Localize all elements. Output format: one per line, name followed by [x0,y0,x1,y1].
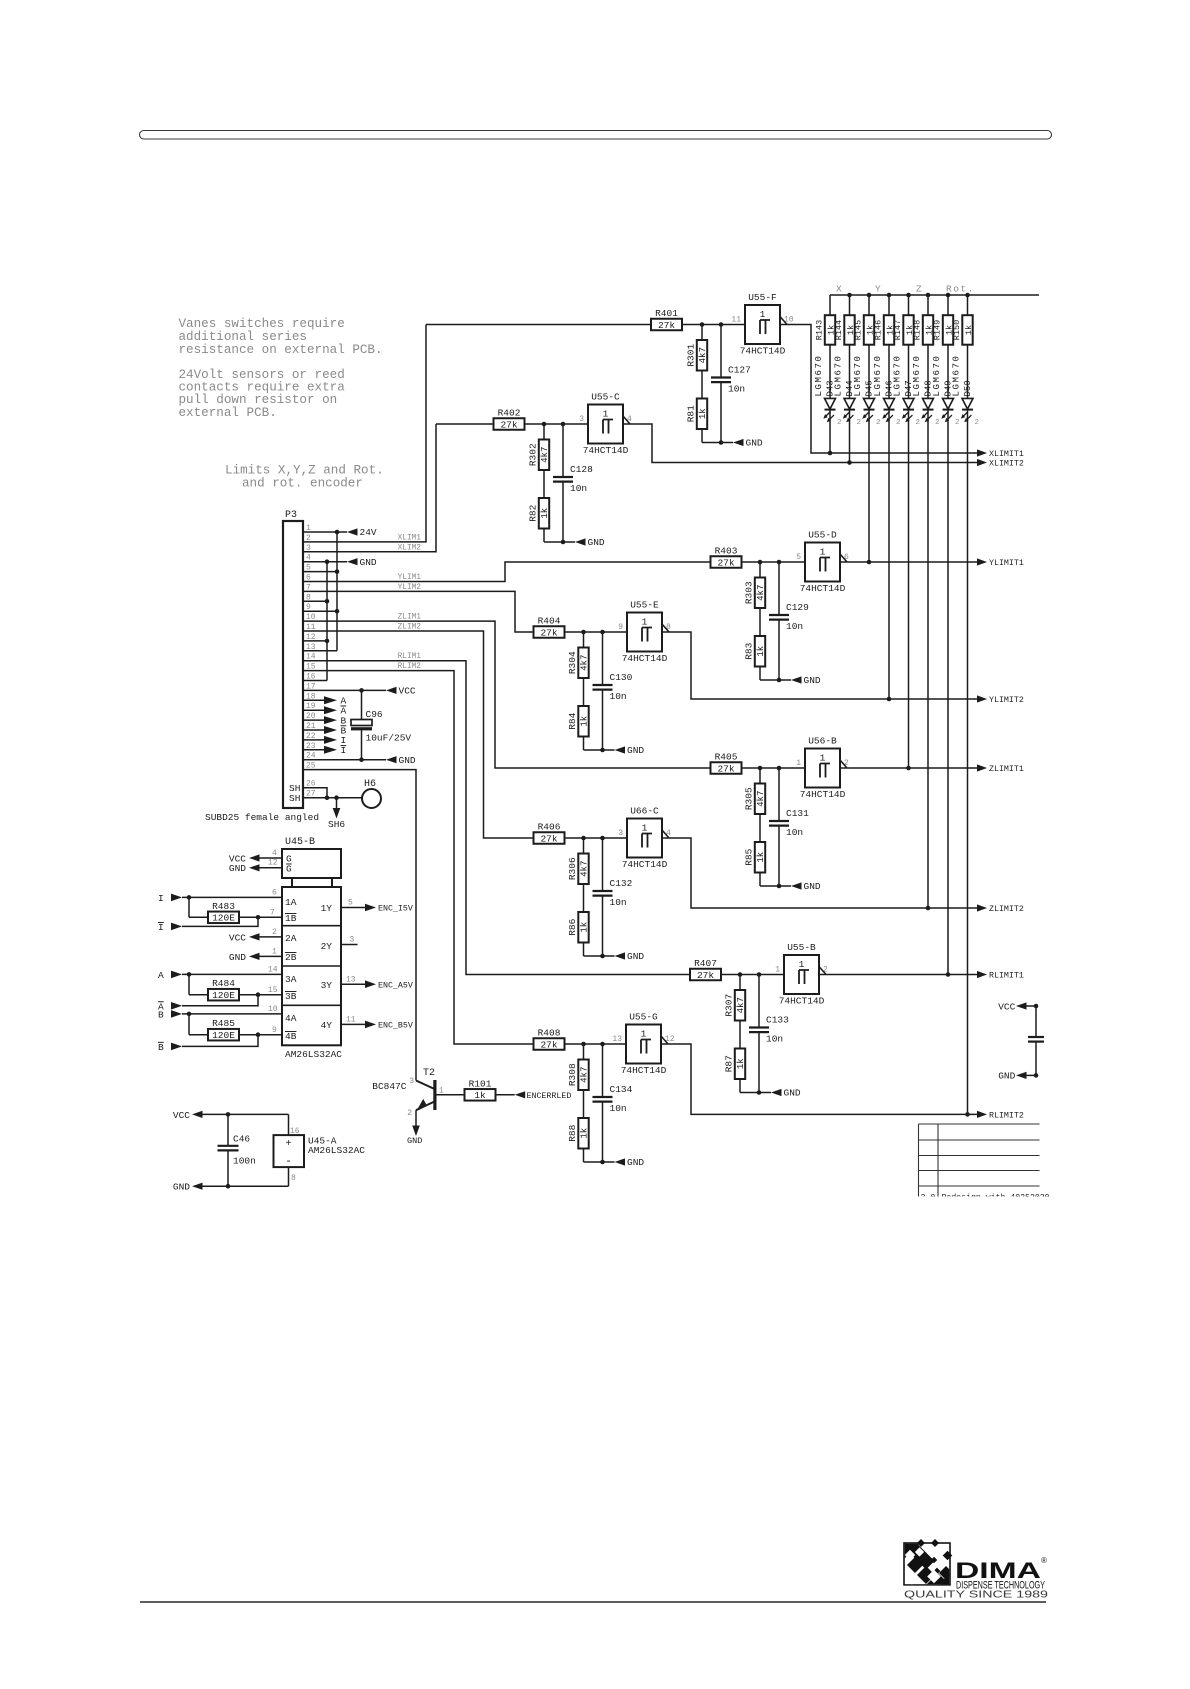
junction [777,884,782,889]
svg-text:1: 1 [642,617,648,628]
resistor R146 [884,315,894,345]
svg-text:XLIMIT2: XLIMIT2 [989,460,1024,469]
svg-text:U66-C: U66-C [630,806,659,817]
svg-text:U56-B: U56-B [808,736,837,747]
svg-text:10uF/25V: 10uF/25V [366,733,412,744]
junction [187,972,192,977]
svg-text:C132: C132 [610,878,633,889]
svg-text:14: 14 [268,966,278,975]
junction node at R301 top [700,322,705,327]
svg-text:3: 3 [350,936,355,945]
svg-text:2: 2 [876,419,881,427]
svg-text:ENC_B5V: ENC_B5V [378,1022,413,1031]
wire 2Y stub [341,944,358,946]
junction [325,559,330,564]
wire YLIMIT1 [840,561,977,563]
wire R406 to U66-C [565,837,628,839]
svg-text:9: 9 [618,623,623,632]
wire R101 to ENCERRLED [496,1094,515,1096]
svg-text:SH6: SH6 [328,819,345,830]
svg-text:2: 2 [837,419,842,427]
svg-text:4A: 4A [285,1013,297,1024]
svg-text:11: 11 [346,1016,356,1025]
svg-text:P3: P3 [285,510,297,521]
svg-text:R307: R307 [724,994,735,1017]
svg-text:10n: 10n [610,691,627,702]
ground GND [615,746,626,753]
wire gnd [760,885,791,887]
junction [965,293,970,298]
junction [600,954,605,959]
svg-text:4k7: 4k7 [736,997,746,1013]
wire column 8 lower [967,410,969,1115]
junction node at R304 top [581,630,586,635]
svg-text:-: - [285,1156,292,1168]
junction node at R306 top [581,836,586,841]
svg-text:13: 13 [612,1035,622,1044]
svg-text:Z: Z [916,284,923,295]
wire pin21 [303,729,324,731]
wire emitter to GND [415,1110,417,1125]
svg-text:I: I [341,745,347,756]
svg-text:74HCT14D: 74HCT14D [800,583,846,594]
wire R301-R81 [701,371,703,399]
svg-text:U55-E: U55-E [630,600,659,611]
svg-text:R82: R82 [528,504,539,521]
wire pin1 24V [303,531,347,533]
svg-text:ENCERRLED: ENCERRLED [527,1092,572,1101]
wire R305 top [759,768,761,784]
svg-text:R485: R485 [212,1018,235,1029]
capacitor C130 [602,632,604,685]
resistor R150 [962,315,972,345]
wire gnd [702,442,733,444]
svg-text:3: 3 [618,829,623,838]
junction [334,795,339,800]
connector P3 [283,521,303,808]
wire R401 input [426,324,651,326]
capacitor C128 [562,424,564,477]
svg-text:R305: R305 [744,787,755,810]
resistor R144 [844,315,854,345]
resistor R303 [755,578,765,609]
svg-text:and rot. encoder: and rot. encoder [242,476,363,490]
svg-text:LGM670: LGM670 [952,354,962,396]
svg-text:4k7: 4k7 [580,655,590,671]
svg-text:XLIMIT1: XLIMIT1 [989,450,1024,459]
wire pin17 VCC [303,689,386,691]
wire column 3 upper [868,295,870,315]
wire R86 bottom [583,943,585,957]
wire R302 top [543,424,545,440]
capacitor C132 [602,838,604,891]
wire R402 to U55-C [525,423,589,425]
svg-text:R148: R148 [913,320,923,340]
svg-text:4k7: 4k7 [580,1067,590,1083]
svg-text:27k: 27k [500,419,517,430]
wire column 7 upper [947,295,949,315]
svg-text:GND: GND [229,863,246,874]
svg-text:1: 1 [272,948,277,957]
resistor R305 [755,784,765,815]
svg-text:R406: R406 [538,822,561,833]
wire RLIMIT2 [661,1044,977,1114]
svg-text:2Y: 2Y [321,941,333,952]
svg-text:GND: GND [804,881,821,892]
junction [887,697,892,702]
svg-text:4k7: 4k7 [756,791,766,807]
wire R81 bottom [701,429,703,443]
svg-text:U55-C: U55-C [591,392,620,403]
wire R88 bottom [583,1149,585,1163]
svg-text:R146: R146 [874,320,884,340]
svg-text:R484: R484 [212,978,235,989]
output port XLIMIT2 [977,459,987,466]
svg-text:GND: GND [998,1071,1015,1082]
junction [946,972,951,977]
svg-text:1k: 1k [580,716,590,727]
svg-text:R304: R304 [567,651,578,674]
svg-text:I: I [158,893,164,904]
LED D48 [923,398,934,409]
wire R408 to U55-G [565,1043,627,1045]
wire gnd [760,679,791,681]
capacitor C96 [361,690,363,719]
svg-text:1: 1 [775,966,780,975]
svg-text:R302: R302 [528,443,539,466]
wire pin20 [303,719,324,721]
svg-text:+: + [285,1139,291,1150]
resistor R404 [534,626,565,638]
IC U45-A power block [288,1114,290,1135]
ground GND [412,1126,420,1137]
svg-text:1A: 1A [285,897,297,908]
ground GND [791,882,802,889]
mounting hole H6 [362,789,381,808]
junction [906,766,911,771]
svg-text:1: 1 [796,759,801,768]
resistor R485 [208,1029,239,1041]
resistor R406 [534,832,565,844]
svg-text:1k: 1k [474,1090,486,1101]
junction [946,293,951,298]
svg-text:5: 5 [348,899,353,908]
wire B to R485 [188,1014,190,1035]
svg-text:R405: R405 [715,752,738,763]
junction [887,293,892,298]
wire XLIMIT2 [623,424,977,463]
wire 4Y output [341,1023,365,1025]
wire A to R484 [188,974,190,994]
svg-text:GND: GND [360,557,377,568]
svg-text:10n: 10n [766,1034,783,1045]
junction [777,678,782,683]
svg-text:120E: 120E [212,913,235,924]
svg-text:12: 12 [268,859,278,868]
capacitor C46 [227,1114,229,1145]
resistor R101 [465,1089,496,1101]
svg-text:R407: R407 [694,958,717,969]
svg-text:R308: R308 [567,1063,578,1086]
wire column 4 lower [888,410,890,699]
svg-text:R408: R408 [538,1028,561,1039]
junction node at R308 top [581,1042,586,1047]
capacitor (decoupling) [1035,1006,1037,1037]
svg-text:QUALITY SINCE 1989: QUALITY SINCE 1989 [904,1589,1048,1601]
svg-text:R86: R86 [567,918,578,935]
svg-text:74HCT14D: 74HCT14D [621,1065,667,1076]
svg-text:C127: C127 [728,365,751,376]
svg-text:10n: 10n [570,483,587,494]
wire X/Y/Z/Rot top rail [830,294,1039,296]
junction node at R305 top [758,766,763,771]
wire R307 top [739,975,741,991]
svg-text:R84: R84 [567,712,578,729]
wire R301 top [701,325,703,341]
wire pin19 [303,709,324,711]
wire XLIM1 [303,325,426,542]
wire gnd [544,541,575,543]
svg-text:1k: 1k [736,1058,746,1069]
svg-text:A: A [158,970,164,981]
wire pin9 [303,610,337,612]
junction [256,1032,261,1037]
wire T2 collector [416,1081,435,1090]
svg-text:3B: 3B [285,991,297,1002]
svg-text:15: 15 [268,986,278,995]
junction [719,440,724,445]
svg-text:1k: 1k [756,852,766,863]
capacitor C129 [778,562,780,615]
svg-text:4k7: 4k7 [540,447,550,463]
ground GND [615,952,626,959]
svg-text:R83: R83 [744,642,755,659]
svg-text:2A: 2A [285,933,297,944]
svg-text:LGM670: LGM670 [814,354,824,396]
svg-text:VCC: VCC [399,686,416,697]
svg-text:100n: 100n [233,1156,256,1167]
wire R304-R84 [583,678,585,706]
wire column 6 mid [927,345,929,399]
svg-text:10n: 10n [610,897,627,908]
wire 3Y output [341,983,365,985]
svg-text:C128: C128 [570,464,593,475]
svg-text:1: 1 [603,409,609,420]
junction [226,1184,231,1189]
svg-text:C133: C133 [766,1015,789,1026]
inverter U55-E [627,613,662,652]
svg-text:AM26LS32AC: AM26LS32AC [308,1145,365,1156]
svg-text:1: 1 [642,823,648,834]
svg-text:27k: 27k [717,763,734,774]
svg-text:LGM670: LGM670 [912,354,922,396]
wire RLIMIT1 [819,974,977,976]
wire pin8 [303,600,327,602]
wire column 5 lower [908,410,910,768]
svg-text:YLIMIT2: YLIMIT2 [989,696,1024,705]
svg-text:R483: R483 [212,901,235,912]
svg-text:1: 1 [760,309,766,320]
svg-text:BC847C: BC847C [372,1081,407,1092]
wire R308-R88 [583,1090,585,1118]
wire column 1 lower [829,410,831,453]
svg-text:additional series: additional series [179,330,307,344]
junction [187,1012,192,1017]
svg-text:GND: GND [229,952,246,963]
svg-text:C96: C96 [366,709,383,720]
wire R304 top [583,632,585,648]
svg-text:1: 1 [439,1087,444,1096]
resistor R83 [755,636,765,667]
svg-text:GND: GND [804,675,821,686]
wire T2 emitter [416,1102,435,1111]
wire R85 bottom [759,873,761,887]
svg-text:2: 2 [857,419,862,427]
resistor R402 [494,418,525,430]
svg-text:external PCB.: external PCB. [179,406,277,420]
svg-text:Vanes switches require: Vanes switches require [179,317,345,331]
resistor R86 [578,912,588,943]
svg-text:27k: 27k [717,557,734,568]
svg-text:27k: 27k [540,627,557,638]
svg-text:ZLIMIT2: ZLIMIT2 [989,905,1024,914]
wire pin25 to T2 collector [303,770,416,1081]
svg-text:27k: 27k [540,833,557,844]
svg-text:T2: T2 [423,1068,435,1079]
svg-text:GND: GND [746,438,763,449]
svg-text:3Y: 3Y [321,980,333,991]
junction [256,992,261,997]
svg-text:YLIMIT1: YLIMIT1 [989,559,1024,568]
svg-text:1: 1 [641,1029,647,1040]
resistor R145 [864,315,874,345]
svg-text:2B: 2B [285,952,297,963]
resistor R147 [903,315,913,345]
svg-text:1k: 1k [756,646,766,657]
svg-text:2: 2 [272,928,277,937]
capacitor C134 [602,1044,604,1097]
wire 1Y output [341,907,365,909]
wire pin16 [303,680,327,682]
power port 24V [347,528,358,535]
svg-text:4k7: 4k7 [698,347,708,363]
wire column 3 mid [868,345,870,399]
svg-text:R149: R149 [933,320,943,340]
svg-text:R88: R88 [567,1124,578,1141]
wire column 7 lower [947,410,949,975]
svg-text:VCC: VCC [229,932,246,943]
junction [256,915,261,920]
wire column 6 lower [927,410,929,908]
svg-text:R143: R143 [815,320,825,340]
svg-text:1B: 1B [285,913,297,924]
ground GND [771,1089,782,1096]
svg-text:2: 2 [955,419,960,427]
svg-text:3: 3 [409,1077,414,1086]
wire column 2 lower [849,410,851,463]
svg-text:27k: 27k [697,970,714,981]
svg-text:6: 6 [272,889,277,898]
svg-text:U55-B: U55-B [787,942,816,953]
junction [867,293,872,298]
wire ZLIM1 [303,621,711,768]
wire I to R483 [188,897,190,917]
svg-text:R87: R87 [724,1055,735,1072]
svg-text:SH: SH [289,793,300,804]
wire R306-R86 [583,884,585,912]
resistor R149 [943,315,953,345]
svg-text:1k: 1k [964,325,974,335]
svg-text:5: 5 [796,553,801,562]
junction [187,895,192,900]
svg-text:2: 2 [407,1109,412,1118]
svg-text:LGM670: LGM670 [932,354,942,396]
wire pin27 SH [303,797,362,799]
resistor R408 [534,1038,565,1050]
svg-text:AM26LS32AC: AM26LS32AC [285,1049,342,1060]
inverter U55-C [588,405,623,444]
output port XLIMIT1 [977,449,987,456]
LED D47 [903,398,914,409]
output port RLIMIT2 [977,1111,987,1118]
inverter U55-G [626,1025,661,1064]
wire R407 to U55-B [721,974,784,976]
capacitor C131 [778,768,780,821]
top border band [140,131,1052,140]
svg-text:X: X [836,284,843,295]
svg-text:8: 8 [291,1174,296,1183]
bottom rule [140,1601,1046,1603]
svg-text:10n: 10n [728,384,745,395]
wire pin23 [303,749,324,751]
junction [965,1112,970,1117]
svg-text:10n: 10n [610,1103,627,1114]
svg-text:3A: 3A [285,974,297,985]
wire Ibar [182,917,258,926]
junction node at R307 top [738,972,743,977]
svg-text:R145: R145 [854,320,864,340]
svg-text:Rot.: Rot. [946,284,975,295]
resistor R82 [539,498,549,529]
LED D43 [825,398,836,409]
svg-text:2: 2 [935,419,940,427]
junction [359,688,364,693]
revision table [919,1124,1040,1197]
svg-text:1k: 1k [540,508,550,519]
wire R303-R83 [759,608,761,636]
svg-text:13: 13 [346,975,356,984]
wire ZLIMIT1 [840,767,977,769]
svg-text:C46: C46 [233,1134,250,1145]
svg-text:74HCT14D: 74HCT14D [800,789,846,800]
junction [600,748,605,753]
ground GND [575,538,586,545]
ground GND [791,676,802,683]
svg-text:C134: C134 [610,1084,633,1095]
capacitor C133 [758,975,760,1028]
junction [359,757,364,762]
junction [226,1112,231,1117]
ground port GND [347,558,358,565]
wire YLIM2 [303,591,534,632]
signal port Ibar [324,746,337,754]
wire pin24 GND [303,759,386,761]
junction [867,560,872,565]
resistor R308 [578,1060,588,1091]
svg-text:1: 1 [820,753,826,764]
wire column 4 upper [888,295,890,315]
resistor R483 [208,912,239,924]
